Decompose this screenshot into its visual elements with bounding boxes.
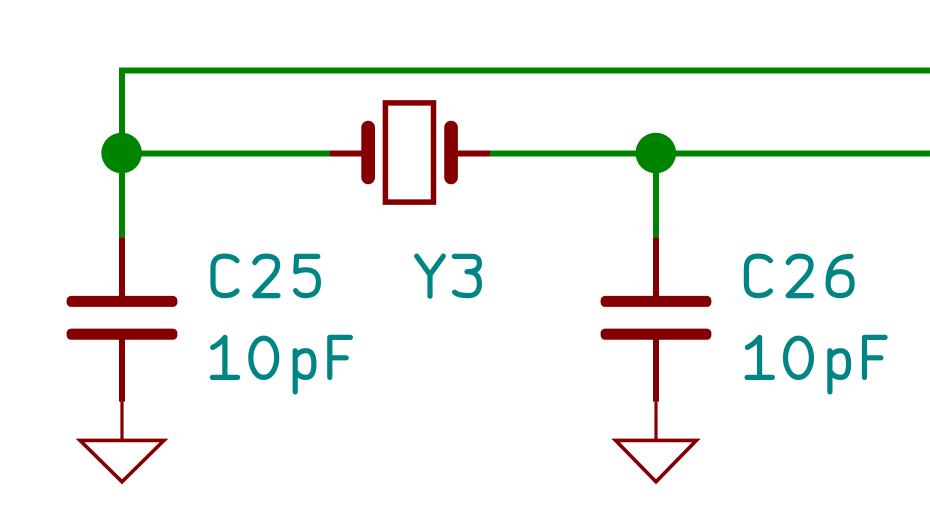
label 10pF (C25 value) <box>212 337 350 392</box>
wire: junction 1 down to C25 pin <box>119 154 125 238</box>
wire: junction 1 to crystal left pin <box>122 151 331 157</box>
C25 bottom plate <box>67 329 178 340</box>
C26 pin 2 lead <box>653 339 659 402</box>
C26 pin 1 lead <box>653 237 659 296</box>
label 10pF (C26 value) <box>747 337 885 392</box>
label Y3 (crystal reference) <box>417 256 480 296</box>
C26 top plate <box>601 296 712 307</box>
C25 top plate <box>67 296 178 307</box>
GND 2 stem <box>654 402 657 440</box>
junction: solder dot at node 1 <box>101 133 142 174</box>
wire: crystal right pin through junction 2 to right edge <box>489 151 930 157</box>
Y3 pin 2 lead <box>455 151 490 157</box>
Y3 left electrode plate <box>361 121 375 184</box>
GND 1 stem <box>120 402 123 440</box>
ground: GND symbol below C26 <box>616 402 697 482</box>
ground: GND symbol below C25 <box>80 402 164 482</box>
C25 pin 2 lead <box>119 339 125 402</box>
capacitor C25 <box>67 237 178 401</box>
Y3 pin 1 lead <box>330 151 364 157</box>
C25 pin 1 lead <box>119 237 125 296</box>
crystal Y3 <box>330 103 490 202</box>
C26 bottom plate <box>601 329 712 340</box>
GND 1 triangle <box>80 440 164 481</box>
GND 2 triangle <box>616 440 697 481</box>
capacitor C26 <box>601 237 712 401</box>
wire: junction 2 down to C26 pin <box>653 154 659 238</box>
label C25 (capacitor reference) <box>213 256 318 296</box>
junction: solder dot at node 2 <box>636 133 677 174</box>
Y3 crystal body <box>385 103 433 202</box>
wire: top feedback net from junction 1 up and across to right edge <box>122 71 930 154</box>
label C26 (capacitor reference) <box>746 256 852 296</box>
Y3 right electrode plate <box>444 121 458 184</box>
